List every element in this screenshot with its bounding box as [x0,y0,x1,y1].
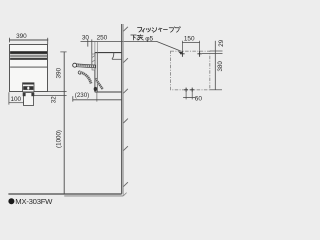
svg-text:60: 60 [195,96,203,103]
svg-text:30: 30 [82,35,90,42]
svg-text:390: 390 [56,67,63,78]
svg-text:380: 380 [217,61,224,72]
svg-text:390: 390 [16,33,27,40]
svg-text:φ5: φ5 [145,35,153,42]
svg-text:29: 29 [218,39,225,46]
svg-text:(230): (230) [75,92,89,99]
svg-text:MX-303FW: MX-303FW [15,197,53,206]
svg-text:(1000): (1000) [55,130,62,148]
svg-text:32: 32 [50,96,57,103]
svg-text:100: 100 [10,96,21,103]
svg-text:150: 150 [184,36,195,43]
svg-text:250: 250 [97,35,108,42]
